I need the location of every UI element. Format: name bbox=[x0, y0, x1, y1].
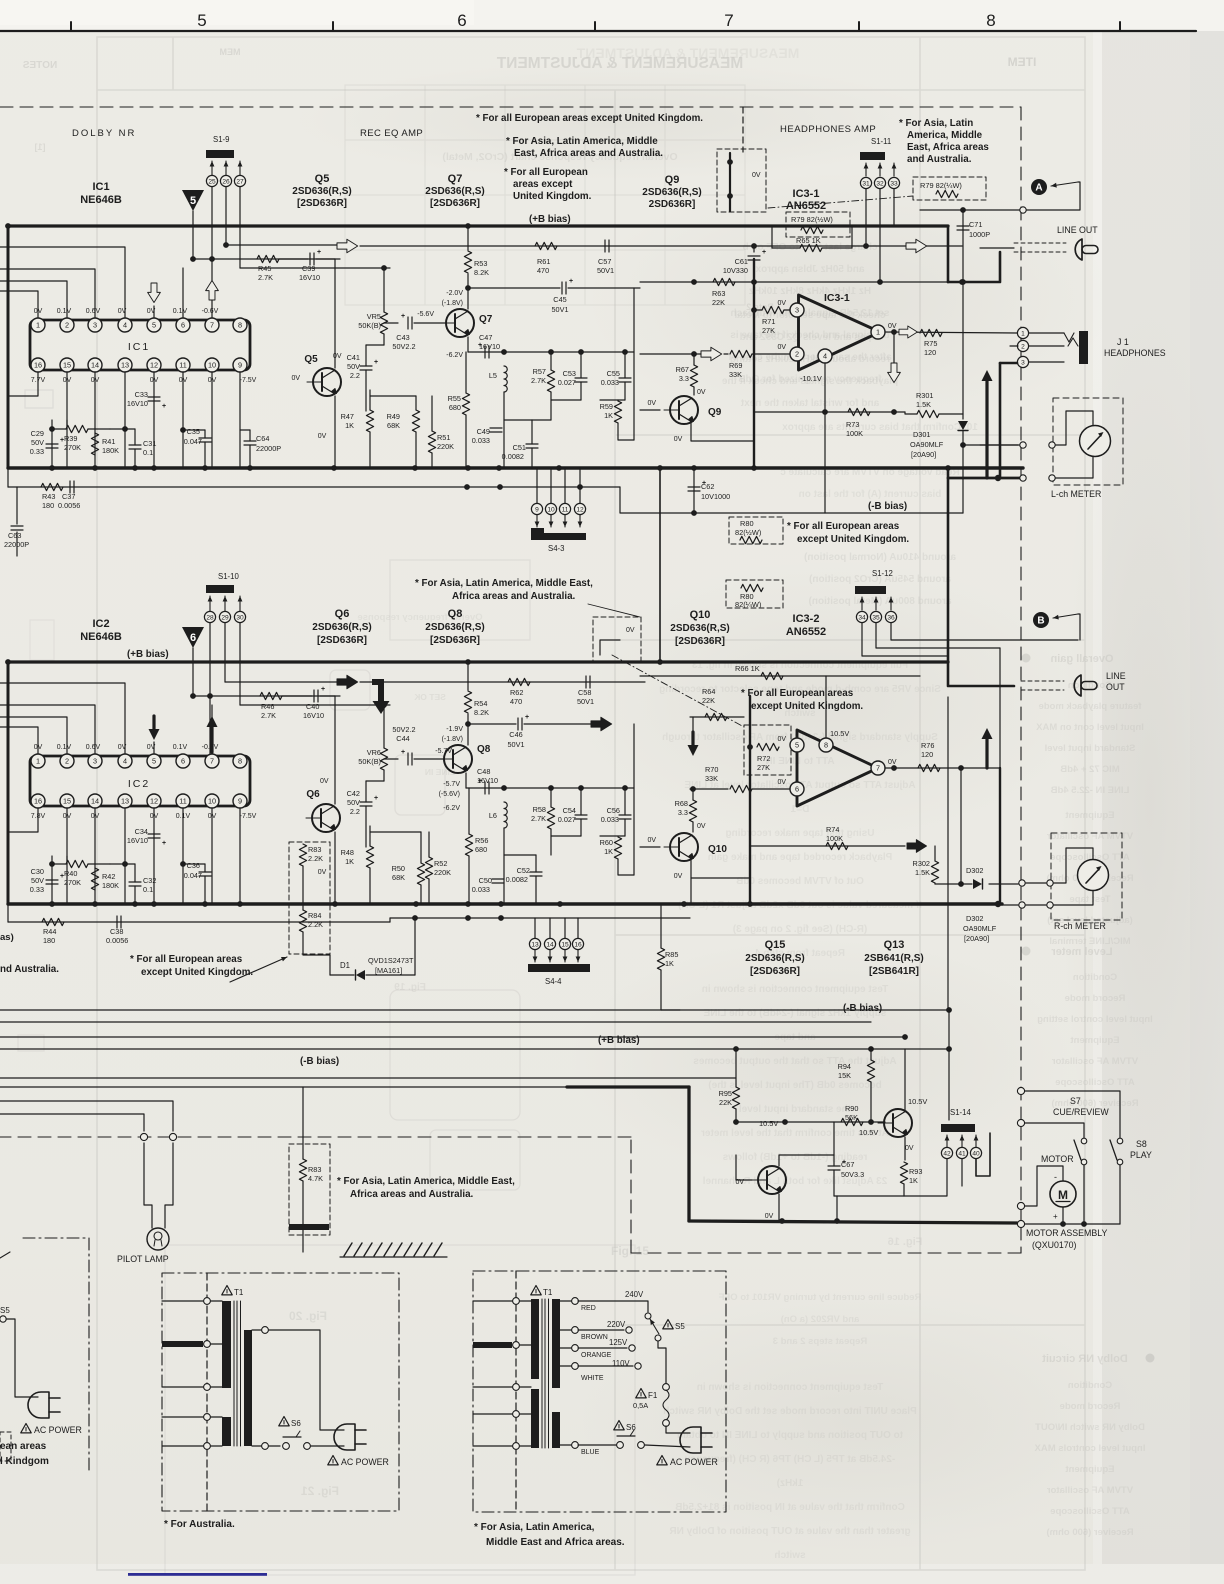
pin 1 bbox=[31, 318, 45, 332]
svg-text:4: 4 bbox=[823, 352, 827, 361]
wire bbox=[577, 918, 579, 938]
svg-text:ATT Oscilloscope: ATT Oscilloscope bbox=[1050, 1506, 1130, 1517]
wire bbox=[365, 781, 367, 802]
svg-text:Equipment: Equipment bbox=[1065, 810, 1115, 821]
svg-text:Test equipment connection i: Test equipment connection is shown in bbox=[697, 1382, 884, 1393]
resistor R42 bbox=[91, 868, 98, 890]
junction bbox=[465, 901, 471, 907]
wire bbox=[520, 1300, 531, 1302]
svg-text:Place UNIT into record mod: Place UNIT into record mode set the Dolb… bbox=[663, 1406, 916, 1417]
wire bbox=[560, 1329, 571, 1331]
svg-text:+: + bbox=[762, 249, 766, 256]
wire bbox=[870, 1049, 872, 1060]
wire bbox=[467, 226, 469, 250]
svg-text:MEM: MEM bbox=[220, 47, 241, 57]
pin 3 bbox=[790, 303, 804, 317]
svg-text:C67: C67 bbox=[841, 1160, 854, 1169]
svg-text:110V: 110V bbox=[612, 1359, 630, 1368]
junction bbox=[891, 765, 897, 771]
svg-text:0.1V: 0.1V bbox=[173, 308, 188, 315]
svg-text:1: 1 bbox=[876, 328, 880, 337]
capacitor C53 bbox=[575, 378, 587, 382]
resistor R63 bbox=[713, 278, 735, 285]
junction bbox=[5, 223, 11, 229]
svg-text:0.6V: 0.6V bbox=[86, 308, 101, 315]
terminal bbox=[204, 1443, 211, 1450]
wire bbox=[8, 921, 390, 923]
thick ground to meter bbox=[999, 768, 1001, 903]
rail 5 bbox=[0, 1086, 567, 1088]
svg-text:16: 16 bbox=[34, 797, 42, 806]
pin 15 bbox=[60, 358, 74, 372]
svg-text:C30: C30 bbox=[31, 867, 44, 876]
svg-text:IC1: IC1 bbox=[92, 181, 109, 193]
svg-text:D1: D1 bbox=[340, 961, 350, 970]
svg-text:3: 3 bbox=[1021, 359, 1025, 366]
signal line R-ch bbox=[360, 681, 645, 683]
junction bbox=[180, 427, 186, 433]
arrow to S1-9 bbox=[239, 161, 241, 176]
svg-text:50V2.2: 50V2.2 bbox=[392, 342, 415, 351]
flow arrow down filled 2 bbox=[691, 732, 694, 747]
svg-text:ORANGE: ORANGE bbox=[581, 1352, 612, 1359]
svg-text:* For all European: * For all European bbox=[504, 167, 588, 178]
svg-text:2SD636R]: 2SD636R] bbox=[649, 199, 696, 210]
svg-text:680: 680 bbox=[449, 403, 461, 412]
capacitor C58 bbox=[586, 676, 590, 688]
svg-text:United Kingdom.: United Kingdom. bbox=[513, 191, 592, 202]
wire bbox=[690, 878, 692, 904]
rail 10.5V bbox=[736, 1121, 885, 1123]
pilot lamp wire bbox=[0, 1114, 144, 1131]
junction bbox=[498, 915, 504, 921]
resistor R83 bbox=[299, 1159, 306, 1181]
svg-text:16V10: 16V10 bbox=[303, 711, 324, 720]
svg-text:50V3.3: 50V3.3 bbox=[841, 1170, 864, 1179]
svg-text:C38: C38 bbox=[110, 927, 123, 936]
pilot lamp wire bbox=[0, 1101, 173, 1131]
svg-text:0V: 0V bbox=[118, 744, 127, 751]
svg-text:MEASUREMENT & ADJUSTMENT: MEASUREMENT & ADJUSTMENT bbox=[576, 45, 799, 61]
wire B loop bbox=[1078, 614, 1080, 640]
svg-text:22000P: 22000P bbox=[256, 444, 281, 453]
terminal bbox=[169, 1133, 176, 1140]
leader dashdot bbox=[612, 655, 744, 727]
svg-text:L6: L6 bbox=[489, 811, 497, 820]
wire bbox=[693, 387, 695, 395]
svg-text:Playback recorded tape and: Playback recorded tape and make gain bbox=[708, 852, 893, 863]
pin 7 bbox=[205, 318, 219, 332]
svg-text:[MA161]: [MA161] bbox=[375, 966, 402, 975]
wire bbox=[420, 832, 422, 863]
connector pin 12 bbox=[574, 503, 585, 514]
resistor R43 bbox=[41, 483, 63, 490]
svg-text:R51: R51 bbox=[437, 433, 450, 442]
connector pin 27 bbox=[234, 175, 245, 186]
+B bus mid bbox=[8, 660, 948, 663]
capacitor C39 bbox=[310, 253, 314, 265]
switch S6 (Australia) bbox=[279, 1417, 289, 1426]
blue rule bbox=[128, 1573, 267, 1576]
svg-text:R66 1K: R66 1K bbox=[735, 664, 760, 673]
svg-text:8: 8 bbox=[824, 741, 828, 750]
wire bbox=[329, 955, 331, 975]
svg-text:16V10: 16V10 bbox=[127, 399, 148, 408]
pin 1 bbox=[871, 325, 885, 339]
wire bbox=[1029, 345, 1064, 347]
svg-text:-7.5V: -7.5V bbox=[240, 813, 257, 820]
svg-text:0.033: 0.033 bbox=[472, 436, 490, 445]
junction bbox=[464, 484, 470, 490]
wire bbox=[52, 428, 66, 430]
svg-text:R85: R85 bbox=[665, 950, 678, 959]
svg-text:180: 180 bbox=[42, 501, 54, 510]
meter wiring bbox=[1055, 457, 1093, 478]
wire bbox=[534, 918, 536, 938]
resistor R72 bbox=[757, 743, 779, 750]
terminal bbox=[1081, 1159, 1087, 1165]
junction bbox=[496, 465, 502, 471]
svg-text:R42: R42 bbox=[102, 872, 115, 881]
svg-text:HEADPHONES: HEADPHONES bbox=[1104, 348, 1166, 358]
thick stub to J1 pin3 bbox=[1000, 362, 1017, 365]
svg-text:[2SD636R]: [2SD636R] bbox=[430, 198, 480, 209]
wire bbox=[134, 886, 136, 904]
wire bbox=[640, 353, 701, 355]
dashed box R80 half watt bbox=[729, 517, 783, 544]
junction bbox=[946, 1007, 952, 1013]
svg-text:470: 470 bbox=[537, 266, 549, 275]
wire bbox=[302, 866, 304, 910]
svg-text:2.7K: 2.7K bbox=[531, 814, 546, 823]
resistor R60 bbox=[614, 837, 621, 859]
flow arrow up filled 2 bbox=[985, 737, 988, 768]
svg-text:0.1: 0.1 bbox=[143, 448, 153, 457]
svg-text:Input level control setting: Input level control setting bbox=[1037, 1014, 1153, 1025]
pin 3 bbox=[88, 754, 102, 768]
wire -B feed bbox=[8, 486, 620, 488]
svg-text:R53: R53 bbox=[474, 259, 487, 268]
wire bbox=[893, 332, 895, 366]
svg-text:Input level cont on MAX: Input level cont on MAX bbox=[1036, 722, 1144, 733]
svg-text:R40: R40 bbox=[64, 869, 77, 878]
wire bbox=[980, 247, 1014, 249]
wire to plug bbox=[666, 1426, 690, 1433]
svg-text:Test equipment connection i: Test equipment connection is shown in bbox=[702, 984, 889, 995]
signal arrow down pin5 bbox=[148, 283, 161, 303]
svg-text:125V: 125V bbox=[609, 1338, 628, 1347]
pilot lamp lead bbox=[144, 1143, 152, 1228]
wire bbox=[365, 370, 367, 411]
wire bbox=[551, 835, 581, 837]
svg-text:R62: R62 bbox=[510, 688, 523, 697]
pin 11 bbox=[176, 794, 190, 808]
junction bbox=[501, 349, 507, 355]
arrow to A bbox=[1051, 182, 1078, 186]
wire bbox=[520, 1344, 531, 1346]
wire bbox=[560, 1365, 571, 1367]
wire bbox=[420, 885, 422, 904]
wire bbox=[870, 1082, 872, 1122]
resistor VR6 bbox=[380, 748, 387, 770]
svg-text:bias current (A) for the la: bias current (A) for the last on bbox=[799, 489, 942, 500]
svg-text:-6.2V: -6.2V bbox=[446, 352, 463, 359]
svg-text:27: 27 bbox=[236, 178, 244, 185]
svg-text:OUT: OUT bbox=[1106, 682, 1125, 692]
svg-text:0.0056: 0.0056 bbox=[58, 501, 80, 510]
capacitor C38 bbox=[117, 916, 121, 928]
svg-text:0.1V: 0.1V bbox=[57, 308, 72, 315]
op-amp U IC1 body bbox=[30, 320, 250, 370]
junction bbox=[209, 256, 215, 262]
svg-text:0.0082: 0.0082 bbox=[502, 452, 524, 461]
wire pin lead bbox=[239, 808, 241, 904]
junction bbox=[577, 484, 583, 490]
wire bbox=[204, 864, 206, 872]
wire option bbox=[600, 640, 620, 655]
dashed lead bbox=[1014, 251, 1066, 253]
capacitor C36 bbox=[199, 872, 211, 876]
wire bbox=[252, 1329, 261, 1331]
wire bbox=[524, 723, 591, 725]
wire bbox=[192, 648, 194, 696]
svg-text:Receiver (600 ohm): Receiver (600 ohm) bbox=[1046, 1527, 1133, 1538]
transistor Q13 upper bbox=[878, 1109, 912, 1137]
capacitor C63 bbox=[11, 526, 23, 530]
resistor R55 bbox=[462, 393, 469, 415]
junction bbox=[49, 465, 55, 471]
svg-text:+: + bbox=[321, 686, 325, 693]
junction bbox=[945, 465, 951, 471]
wire bbox=[531, 448, 533, 468]
svg-text:0V: 0V bbox=[318, 869, 327, 876]
wire motor plus bbox=[1062, 1207, 1064, 1224]
wire stub bbox=[162, 1416, 203, 1418]
junction bbox=[412, 465, 418, 471]
terminal bbox=[617, 1442, 624, 1449]
svg-text:Q7: Q7 bbox=[479, 314, 493, 325]
svg-text:C34: C34 bbox=[135, 827, 148, 836]
wire bbox=[428, 879, 430, 904]
svg-text:R56: R56 bbox=[475, 836, 488, 845]
switch S4-4 bar bbox=[528, 964, 590, 972]
svg-text:R45: R45 bbox=[258, 264, 271, 273]
pin 2 bbox=[60, 754, 74, 768]
svg-text:R49: R49 bbox=[387, 412, 400, 421]
svg-text:2SD636(R,S): 2SD636(R,S) bbox=[670, 623, 729, 634]
wire bbox=[465, 415, 467, 468]
wire pin8 bbox=[825, 676, 827, 738]
svg-text:2.2K: 2.2K bbox=[308, 920, 323, 929]
svg-text:Middle East and Africa areas.: Middle East and Africa areas. bbox=[486, 1537, 625, 1548]
wire bbox=[580, 352, 582, 378]
connector pin 32 bbox=[874, 177, 885, 188]
svg-text:-5.7V: -5.7V bbox=[435, 748, 452, 755]
junction bbox=[891, 329, 897, 335]
capacitor C44 bbox=[408, 753, 412, 765]
svg-text:R79 82(¼W): R79 82(¼W) bbox=[920, 181, 962, 190]
svg-text:3: 3 bbox=[93, 321, 97, 330]
wire bbox=[240, 704, 390, 706]
resistor R40 bbox=[66, 860, 88, 867]
wire bbox=[16, 487, 18, 524]
thick feed bbox=[947, 226, 950, 282]
wire bbox=[366, 344, 384, 346]
svg-text:S5: S5 bbox=[0, 1306, 10, 1315]
thick stub bbox=[162, 1341, 203, 1347]
junction bbox=[733, 1046, 739, 1052]
wire bbox=[833, 1170, 835, 1196]
wire pin lead bbox=[124, 372, 126, 468]
svg-text:R75: R75 bbox=[924, 339, 937, 348]
svg-text:PILOT LAMP: PILOT LAMP bbox=[117, 1254, 169, 1264]
svg-text:IC3-2: IC3-2 bbox=[793, 613, 820, 625]
resistor R56 bbox=[465, 834, 472, 856]
terminal bbox=[1017, 1220, 1024, 1227]
svg-text:BLUE: BLUE bbox=[581, 1449, 600, 1456]
svg-text:28: 28 bbox=[206, 614, 214, 621]
svg-text:-5.7V: -5.7V bbox=[443, 781, 460, 788]
svg-text:Dolby NR circuit: Dolby NR circuit bbox=[1042, 1353, 1128, 1365]
junction bbox=[122, 426, 128, 432]
svg-text:Q9: Q9 bbox=[708, 407, 722, 418]
wire bbox=[772, 247, 800, 249]
feedback line bbox=[640, 281, 963, 283]
svg-text:C29: C29 bbox=[31, 429, 44, 438]
junction bbox=[497, 484, 503, 490]
svg-text:680: 680 bbox=[475, 845, 487, 854]
svg-text:0.033: 0.033 bbox=[601, 378, 619, 387]
svg-text:Q6: Q6 bbox=[306, 789, 320, 800]
wire bbox=[204, 430, 206, 438]
junction bbox=[92, 901, 98, 907]
wire input bbox=[0, 727, 38, 754]
svg-text:10: 10 bbox=[208, 361, 216, 370]
svg-text:S1-10: S1-10 bbox=[218, 572, 239, 581]
svg-text:0V: 0V bbox=[752, 172, 761, 179]
pilot lamp bbox=[147, 1228, 169, 1250]
wire bbox=[660, 970, 662, 1010]
wire bbox=[724, 353, 728, 355]
svg-text:VR6: VR6 bbox=[367, 748, 381, 757]
svg-text:100K: 100K bbox=[846, 429, 863, 438]
svg-text:LINE IN -22.5 4dB: LINE IN -22.5 4dB bbox=[1051, 785, 1130, 796]
svg-text:S8: S8 bbox=[1136, 1139, 1147, 1149]
svg-text:Equipment: Equipment bbox=[1065, 1464, 1115, 1475]
wire bbox=[904, 1159, 947, 1196]
wire bbox=[365, 806, 367, 847]
wire bbox=[211, 1445, 222, 1447]
svg-text:C39: C39 bbox=[302, 264, 315, 273]
resistor R90 bbox=[841, 1118, 863, 1125]
svg-text:C32: C32 bbox=[143, 876, 156, 885]
resistor R73 bbox=[848, 408, 870, 415]
svg-text:16: 16 bbox=[34, 361, 42, 370]
svg-text:around 800uA (Metal position): around 800uA (Metal position) bbox=[809, 596, 952, 607]
junction bbox=[891, 409, 897, 415]
svg-text:50V2.2: 50V2.2 bbox=[392, 725, 415, 734]
wire pin lead bbox=[66, 808, 68, 904]
svg-text:C48: C48 bbox=[477, 767, 490, 776]
inductor L6 bbox=[504, 802, 507, 828]
dashed block divider bbox=[742, 107, 744, 152]
svg-text:+: + bbox=[60, 873, 64, 880]
transformer T1 (Australia) bbox=[222, 1286, 232, 1295]
dashed lead bbox=[1014, 242, 1066, 244]
resistor R70 bbox=[730, 785, 752, 792]
svg-text:Q7: Q7 bbox=[448, 173, 463, 185]
pin 15 bbox=[60, 794, 74, 808]
arrow bbox=[239, 596, 241, 611]
junction bbox=[412, 915, 418, 921]
connector pin 16 bbox=[572, 938, 583, 949]
wire bbox=[624, 788, 626, 815]
svg-text:L-ch METER: L-ch METER bbox=[1051, 489, 1101, 499]
wire bbox=[369, 390, 371, 410]
terminal bbox=[1020, 442, 1026, 448]
junction bbox=[1081, 1221, 1087, 1227]
bus left vertical 2 bbox=[7, 662, 10, 904]
junction bbox=[960, 279, 966, 285]
wire -B feed step bbox=[620, 487, 694, 513]
svg-text:D301: D301 bbox=[913, 430, 930, 439]
terminal bbox=[1017, 1087, 1024, 1094]
signal arrow filled bbox=[337, 675, 358, 689]
dashed option box bbox=[717, 149, 766, 212]
resistor R84 bbox=[299, 910, 306, 932]
-B bias line bbox=[694, 512, 963, 514]
svg-text:* For all European areas: * For all European areas bbox=[741, 688, 854, 699]
svg-text:[2SB641R]: [2SB641R] bbox=[869, 966, 919, 977]
wire bbox=[754, 309, 762, 311]
svg-text:C50: C50 bbox=[479, 876, 492, 885]
junction bbox=[779, 1218, 785, 1224]
wire bbox=[692, 822, 694, 832]
svg-text:C49: C49 bbox=[477, 427, 490, 436]
junction bbox=[202, 901, 208, 907]
wire bbox=[778, 1194, 780, 1221]
svg-text:2: 2 bbox=[65, 757, 69, 766]
junction bbox=[995, 475, 1001, 481]
wire bbox=[834, 1195, 904, 1197]
wire bbox=[7, 468, 9, 487]
signal arrow bbox=[337, 239, 358, 253]
wire bbox=[550, 468, 552, 503]
resistor R54 bbox=[464, 691, 471, 713]
pin 16 bbox=[31, 794, 45, 808]
svg-text:Fig. 15: Fig. 15 bbox=[611, 1244, 649, 1258]
wire bbox=[252, 1445, 261, 1447]
jack switch symbol bbox=[1064, 333, 1078, 346]
svg-text:Q5: Q5 bbox=[304, 354, 318, 365]
svg-text:+: + bbox=[162, 840, 166, 847]
edge connector hatching bbox=[344, 1243, 352, 1256]
wire bbox=[16, 532, 18, 556]
arrow bbox=[534, 950, 536, 962]
svg-text:2.7K: 2.7K bbox=[531, 376, 546, 385]
capacitor C71 bbox=[957, 226, 969, 230]
wire bbox=[383, 705, 385, 748]
wire bbox=[51, 856, 53, 904]
terminal bbox=[635, 1363, 641, 1369]
svg-text:ITEM: ITEM bbox=[1008, 55, 1037, 69]
connector pin 14 bbox=[544, 938, 555, 949]
capacitor C54 bbox=[575, 815, 587, 819]
switch S1-11 bar bbox=[860, 152, 885, 160]
svg-text:22K: 22K bbox=[702, 696, 715, 705]
svg-text:470: 470 bbox=[510, 697, 522, 706]
svg-text:42: 42 bbox=[943, 1150, 951, 1157]
